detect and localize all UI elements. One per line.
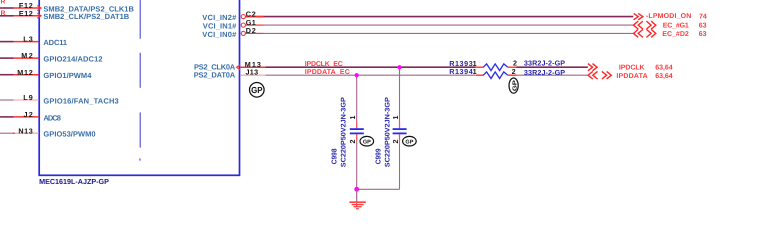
svg-text:E12: E12 [19, 9, 33, 18]
svg-text:33R2J-2-GP: 33R2J-2-GP [524, 68, 565, 77]
svg-text:GP: GP [363, 139, 371, 145]
svg-text:63,64: 63,64 [655, 73, 673, 80]
svg-text:GP: GP [251, 85, 263, 95]
svg-text:GPIO214/ADC12: GPIO214/ADC12 [43, 55, 102, 64]
svg-text:GPIO1/PWM4: GPIO1/PWM4 [43, 71, 92, 80]
svg-text:74: 74 [699, 13, 707, 20]
svg-text:1: 1 [348, 116, 357, 120]
svg-text:M2: M2 [21, 51, 33, 60]
svg-text:IPDCLK_EC: IPDCLK_EC [305, 61, 343, 68]
svg-text:GP: GP [511, 80, 518, 91]
svg-text:R1394: R1394 [449, 67, 473, 76]
svg-text:2: 2 [391, 140, 400, 144]
svg-text:1: 1 [473, 67, 477, 76]
svg-text:GP: GP [405, 139, 413, 145]
svg-text:2: 2 [512, 67, 516, 76]
svg-text:63: 63 [699, 31, 707, 38]
svg-text:33R2J-2-GP: 33R2J-2-GP [524, 59, 565, 68]
svg-text:C999: C999 [373, 149, 382, 165]
svg-text:IPDDATA_EC: IPDDATA_EC [305, 69, 350, 76]
svg-text:SMB2_CLK/PS2_DAT1B: SMB2_CLK/PS2_DAT1B [43, 12, 129, 21]
svg-text:L3: L3 [23, 35, 32, 44]
svg-text:M12: M12 [17, 68, 33, 77]
svg-text:N13: N13 [18, 126, 32, 135]
svg-text:63: 63 [699, 23, 707, 30]
svg-text:VCI_IN0#: VCI_IN0# [202, 30, 237, 39]
svg-text:PS2_DAT0A: PS2_DAT0A [194, 71, 236, 80]
svg-text:IPDDATA: IPDDATA [616, 73, 647, 80]
svg-text:1: 1 [391, 116, 400, 120]
svg-text:J13: J13 [246, 67, 259, 76]
svg-text:ADC11: ADC11 [43, 38, 67, 47]
svg-text:L9: L9 [23, 93, 32, 102]
svg-text:ADC8: ADC8 [43, 113, 61, 122]
svg-text:-LPMODI_ON: -LPMODI_ON [646, 13, 691, 20]
svg-text:63,64: 63,64 [655, 65, 673, 72]
svg-text:J2: J2 [24, 110, 33, 119]
svg-text:C998: C998 [330, 149, 339, 165]
svg-text:R: R [1, 10, 6, 17]
svg-text:IPDCLK: IPDCLK [619, 65, 645, 72]
svg-text:MEC1619L-AJZP-GP: MEC1619L-AJZP-GP [39, 177, 109, 186]
svg-text:EC_#G1: EC_#G1 [663, 23, 689, 30]
svg-text:D2: D2 [246, 26, 256, 35]
svg-text:SC220P50V2JN-3GP: SC220P50V2JN-3GP [340, 97, 347, 167]
svg-text:GPIO16/FAN_TACH3: GPIO16/FAN_TACH3 [43, 96, 118, 105]
svg-text:R: R [1, 0, 6, 6]
svg-text:SC220P50V2JN-3GP: SC220P50V2JN-3GP [384, 97, 391, 167]
svg-text:2: 2 [348, 140, 357, 144]
svg-text:EC_#D2: EC_#D2 [662, 31, 689, 38]
svg-text:GPIO53/PWM0: GPIO53/PWM0 [43, 130, 95, 139]
